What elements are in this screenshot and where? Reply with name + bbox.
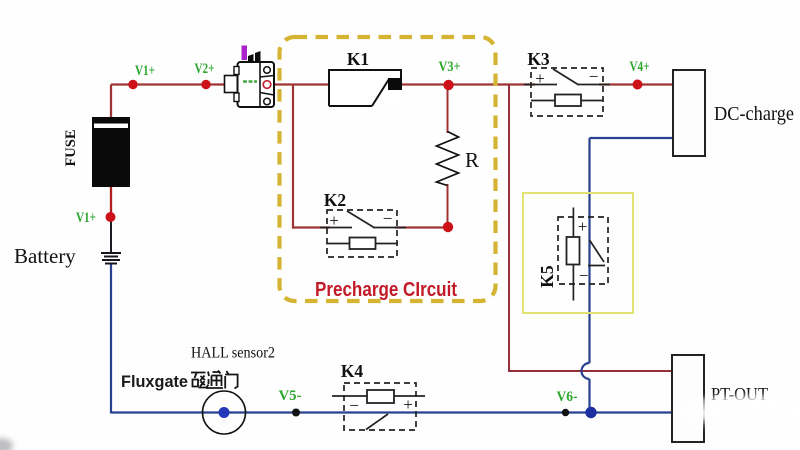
resistor R zigzag: [437, 132, 459, 186]
svg-text:−: −: [589, 67, 599, 86]
relay K3: [524, 67, 610, 116]
node V5- dot: [292, 409, 300, 417]
node blue junction dot: [585, 407, 596, 418]
fuse F1 body: [92, 117, 130, 187]
svg-text:DC-charge: DC-charge: [714, 103, 794, 125]
sensor black terminals: [248, 51, 261, 62]
svg-text:V6-: V6-: [557, 389, 578, 405]
white fade artifact over PT-OUT area: [685, 396, 800, 427]
svg-text:K4: K4: [341, 361, 364, 381]
wire: red vertical battery/fuse drop x=111: [110, 85, 112, 216]
svg-text:K2: K2: [324, 190, 346, 210]
svg-text:FUSE: FUSE: [63, 129, 79, 166]
wire: red precharge left branch x=293: [292, 85, 294, 229]
svg-text:+: +: [403, 395, 413, 414]
sensor purple indicator: [242, 46, 248, 61]
relay K4: [332, 383, 425, 430]
connector PT-OUT box: [672, 355, 704, 442]
label CJK 磁通门 (hand drawn): [191, 371, 238, 389]
wire: red K2 row y=227.5: [293, 226, 448, 228]
svg-text:Battery: Battery: [14, 244, 76, 268]
fluxgate sensor circle: [203, 391, 246, 434]
precharge dashed yellow border: [280, 37, 496, 301]
svg-text:Precharge CIrcuit: Precharge CIrcuit: [315, 279, 457, 301]
contactor K1 body: [329, 70, 402, 106]
node junction dot (K2 right / resistor bottom): [443, 222, 453, 232]
svg-text:V3+: V3+: [439, 59, 461, 75]
wire: blue link DC-charge to K5 column x=589.5 with hop: [582, 138, 674, 413]
svg-text:V1+: V1+: [76, 210, 96, 226]
svg-text:K1: K1: [347, 49, 369, 69]
node V6- dot: [562, 409, 569, 416]
relay K5 (vertical): [558, 208, 608, 301]
svg-text:Fluxgate: Fluxgate: [121, 372, 188, 391]
svg-text:V5-: V5-: [279, 388, 302, 404]
svg-text:K5: K5: [537, 265, 557, 288]
svg-text:V1+: V1+: [135, 63, 155, 79]
battery B1 symbol: [101, 253, 121, 264]
svg-text:+: +: [535, 69, 545, 88]
svg-text:+: +: [578, 217, 588, 236]
node V1+ (top) dot: [128, 80, 137, 89]
wire: dark red branch x=509 down to PT-OUT: [508, 85, 672, 372]
svg-text:−: −: [349, 396, 359, 415]
wire: navy bottom bus y=412.5: [111, 411, 673, 413]
relay K2: [320, 209, 406, 257]
wire: black segment V1+ to battery symbol: [110, 219, 112, 252]
node V4+ dot: [633, 80, 643, 90]
current sensor (hall) component at top: [225, 62, 275, 107]
node V3+ dot: [443, 80, 453, 90]
svg-text:+: +: [329, 211, 339, 230]
svg-text:−: −: [579, 266, 589, 285]
wire: navy vertical below battery: [110, 263, 112, 414]
node V2+ dot: [201, 80, 210, 89]
svg-text:V4+: V4+: [630, 59, 650, 75]
svg-text:HALL sensor2: HALL sensor2: [191, 345, 275, 362]
wire: main red bus y=84.5 from battery top to DC-charge: [111, 83, 673, 85]
connector DC-charge box: [673, 70, 705, 156]
svg-text:−: −: [383, 209, 393, 228]
svg-text:V2+: V2+: [195, 61, 215, 77]
wire: red resistor leads x=447.5: [447, 85, 449, 227]
svg-text:K3: K3: [527, 49, 550, 69]
gray smudge bottom-left corner: [0, 438, 13, 450]
svg-text:R: R: [465, 148, 479, 172]
node V1+ (lower, battery) dot: [106, 212, 116, 222]
K5 yellow box: [523, 193, 633, 313]
